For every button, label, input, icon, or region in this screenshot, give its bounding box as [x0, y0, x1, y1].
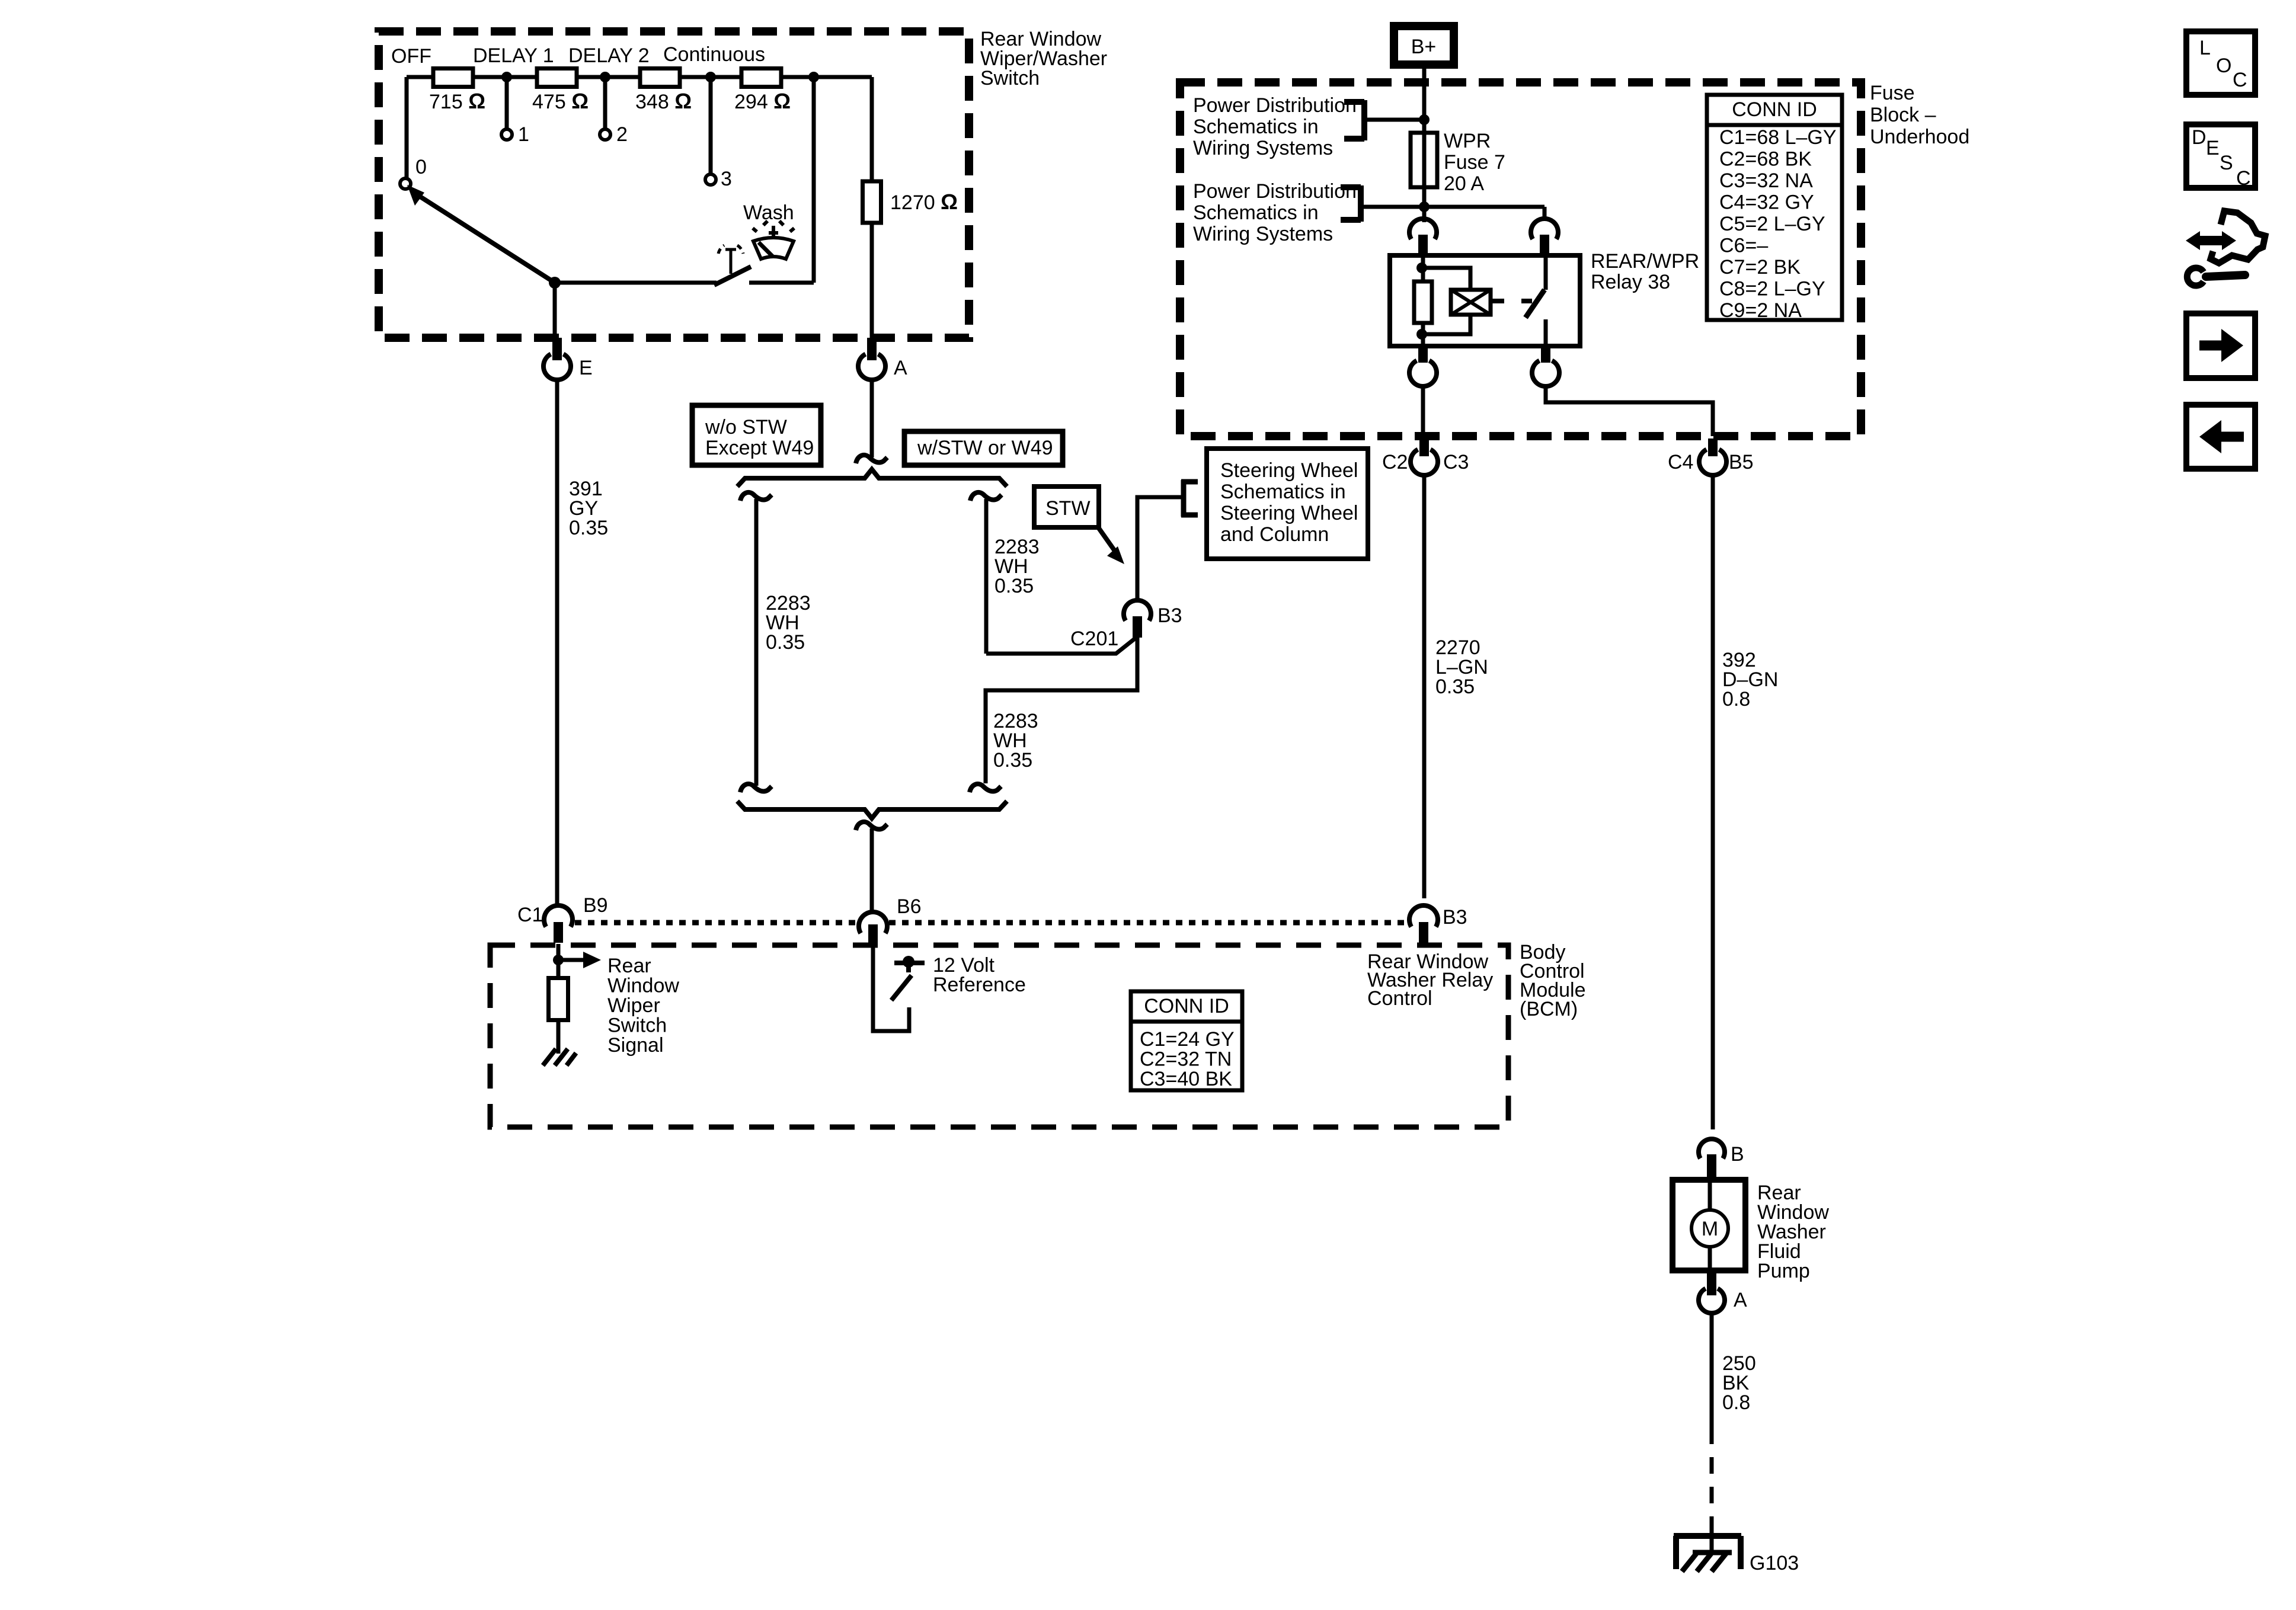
svg-text:Relay 38: Relay 38: [1591, 271, 1670, 293]
svg-text:B9: B9: [583, 894, 608, 917]
svg-text:A: A: [1734, 1289, 1747, 1311]
svg-text:C4=32 GY: C4=32 GY: [1719, 191, 1814, 214]
svg-text:L: L: [2199, 37, 2211, 59]
svg-text:E: E: [2206, 137, 2220, 159]
svg-text:Power Distribution: Power Distribution: [1193, 180, 1357, 203]
svg-text:E: E: [579, 357, 593, 379]
svg-text:B3: B3: [1443, 906, 1467, 929]
svg-text:B: B: [1731, 1143, 1744, 1166]
svg-text:WPR: WPR: [1444, 130, 1491, 152]
svg-text:Pump: Pump: [1757, 1260, 1810, 1282]
svg-text:B3: B3: [1157, 604, 1182, 627]
svg-text:C201: C201: [1070, 628, 1118, 650]
svg-text:B+: B+: [1411, 36, 1437, 58]
svg-text:CONN ID: CONN ID: [1144, 995, 1229, 1017]
svg-text:Fuse 7: Fuse 7: [1444, 151, 1505, 174]
svg-text:Switch: Switch: [607, 1014, 667, 1037]
svg-text:475 Ω: 475 Ω: [532, 89, 589, 113]
svg-text:Wiper: Wiper: [607, 994, 660, 1017]
svg-text:Except W49: Except W49: [705, 437, 814, 459]
svg-text:Underhood: Underhood: [1870, 126, 1969, 148]
svg-text:C1=24 GY: C1=24 GY: [1140, 1028, 1235, 1051]
svg-text:Steering Wheel: Steering Wheel: [1220, 459, 1358, 482]
svg-text:C1=68 L–GY: C1=68 L–GY: [1719, 126, 1837, 149]
svg-text:Schematics in: Schematics in: [1193, 201, 1319, 224]
svg-text:C2=32 TN: C2=32 TN: [1140, 1048, 1232, 1071]
svg-text:0.35: 0.35: [1435, 676, 1475, 698]
svg-text:C5=2 L–GY: C5=2 L–GY: [1719, 213, 1825, 235]
svg-text:0.35: 0.35: [766, 631, 805, 654]
svg-text:0.35: 0.35: [569, 517, 608, 539]
svg-text:Wiring Systems: Wiring Systems: [1193, 223, 1333, 245]
svg-text:w/STW or W49: w/STW or W49: [917, 437, 1053, 459]
svg-text:C3: C3: [1443, 451, 1469, 473]
svg-text:REAR/WPR: REAR/WPR: [1591, 250, 1699, 273]
svg-text:C3=40 BK: C3=40 BK: [1140, 1068, 1232, 1090]
svg-text:O: O: [2216, 55, 2231, 77]
svg-text:Fuse: Fuse: [1870, 82, 1915, 104]
svg-text:Wash: Wash: [743, 201, 794, 224]
svg-text:OFF: OFF: [391, 45, 431, 68]
svg-text:Continuous: Continuous: [663, 43, 765, 66]
svg-text:DELAY 2: DELAY 2: [568, 44, 650, 67]
svg-text:Window: Window: [607, 975, 679, 997]
svg-text:0.8: 0.8: [1722, 1391, 1750, 1414]
svg-text:Signal: Signal: [607, 1034, 664, 1057]
svg-text:1270 Ω: 1270 Ω: [890, 190, 958, 214]
svg-text:Power Distribution: Power Distribution: [1193, 94, 1357, 117]
svg-text:20 A: 20 A: [1444, 172, 1484, 195]
svg-text:C: C: [2233, 69, 2247, 91]
svg-text:Switch: Switch: [980, 67, 1040, 89]
svg-text:C8=2 L–GY: C8=2 L–GY: [1719, 278, 1825, 300]
svg-text:0.8: 0.8: [1722, 688, 1750, 710]
svg-text:3: 3: [721, 168, 732, 190]
svg-text:C1: C1: [517, 904, 543, 926]
svg-text:M: M: [1702, 1218, 1718, 1240]
svg-text:C4: C4: [1668, 451, 1693, 473]
svg-text:B5: B5: [1729, 451, 1754, 473]
svg-text:S: S: [2220, 152, 2233, 174]
svg-text:Rear: Rear: [607, 955, 651, 977]
svg-text:G103: G103: [1750, 1552, 1799, 1574]
svg-text:B6: B6: [897, 895, 922, 918]
svg-text:Schematics in: Schematics in: [1193, 116, 1319, 138]
svg-text:C2: C2: [1382, 451, 1408, 473]
svg-text:C7=2 BK: C7=2 BK: [1719, 256, 1801, 279]
svg-text:0.35: 0.35: [993, 749, 1032, 772]
svg-text:0.35: 0.35: [994, 575, 1034, 597]
svg-text:Schematics in: Schematics in: [1220, 481, 1346, 503]
svg-text:and Column: and Column: [1220, 523, 1329, 546]
svg-text:C2=68 BK: C2=68 BK: [1719, 148, 1812, 171]
svg-text:294 Ω: 294 Ω: [734, 89, 791, 113]
svg-text:2: 2: [616, 123, 628, 146]
svg-text:w/o STW: w/o STW: [705, 416, 787, 438]
svg-text:C6=–: C6=–: [1719, 235, 1768, 257]
svg-text:Block –: Block –: [1870, 104, 1936, 126]
svg-text:STW: STW: [1045, 497, 1091, 520]
svg-text:C3=32 NA: C3=32 NA: [1719, 169, 1813, 192]
svg-text:Wiring Systems: Wiring Systems: [1193, 137, 1333, 159]
svg-text:C9=2 NA: C9=2 NA: [1719, 299, 1802, 322]
svg-text:CONN ID: CONN ID: [1732, 98, 1817, 121]
svg-text:Steering Wheel: Steering Wheel: [1220, 502, 1358, 524]
svg-text:(BCM): (BCM): [1520, 998, 1578, 1020]
svg-text:Control: Control: [1367, 987, 1432, 1010]
svg-text:1: 1: [518, 123, 529, 146]
svg-text:DELAY 1: DELAY 1: [473, 44, 554, 67]
svg-text:A: A: [894, 357, 907, 379]
svg-text:D: D: [2192, 126, 2207, 149]
svg-text:348 Ω: 348 Ω: [635, 89, 692, 113]
svg-text:C: C: [2236, 167, 2251, 190]
svg-text:Reference: Reference: [933, 974, 1026, 996]
svg-text:0: 0: [415, 156, 427, 178]
svg-text:715 Ω: 715 Ω: [429, 89, 485, 113]
